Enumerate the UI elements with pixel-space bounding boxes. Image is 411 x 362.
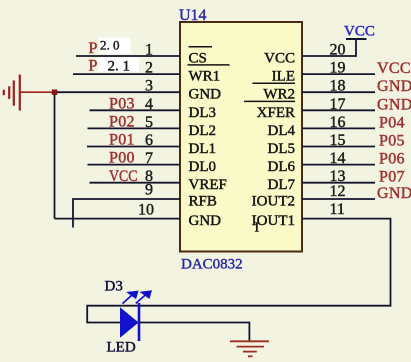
svg-text:LED: LED (107, 340, 136, 356)
svg-text:10: 10 (138, 201, 154, 218)
svg-text:P: P (89, 40, 98, 57)
LED D3 triangle (120, 307, 139, 338)
wire pin20 to VCC stub (302, 39, 356, 56)
svg-text:2. 0: 2. 0 (100, 38, 120, 53)
svg-text:WR1: WR1 (189, 69, 221, 85)
ground symbol (bottom, red bars) (230, 341, 269, 356)
power symbol VCC bar (346, 38, 367, 40)
wire pin1 (net P2.0) (76, 55, 180, 57)
svg-text:ILE: ILE (272, 69, 295, 85)
svg-text:DL0: DL0 (189, 159, 217, 175)
svg-text:12: 12 (330, 183, 346, 200)
svg-text:9: 9 (145, 182, 153, 199)
svg-text:P05: P05 (379, 133, 405, 150)
overline for XFER (244, 100, 295, 102)
svg-text:U14: U14 (179, 7, 207, 24)
svg-text:6: 6 (145, 132, 153, 149)
wire pin6 (net P01) (87, 146, 180, 148)
net label P2.0 (89, 38, 120, 58)
wire pin3 GND from junction (55, 91, 181, 93)
svg-text:DL7: DL7 (268, 177, 296, 193)
wire pin16 (net P04) (302, 127, 375, 129)
svg-text:1: 1 (145, 42, 153, 59)
svg-text:16: 16 (330, 114, 346, 131)
svg-text:D3: D3 (105, 279, 123, 295)
svg-text:20: 20 (330, 42, 346, 59)
svg-text:2: 2 (145, 60, 153, 77)
svg-text:5: 5 (145, 114, 153, 131)
svg-text:GND: GND (377, 185, 411, 202)
svg-text:XFER: XFER (257, 105, 295, 121)
LED light arrow 2 (136, 291, 151, 303)
svg-text:P03: P03 (109, 95, 135, 112)
svg-text:15: 15 (330, 132, 346, 149)
svg-text:3: 3 (145, 78, 153, 95)
wire pin9 with stub down (73, 199, 180, 228)
svg-text:DL3: DL3 (189, 105, 217, 121)
svg-text:7: 7 (145, 150, 153, 167)
wire vertical ground column (54, 92, 56, 218)
svg-text:DAC0832: DAC0832 (181, 257, 243, 273)
wire pin5 (net P02) (88, 127, 181, 129)
svg-text:DL6: DL6 (268, 159, 296, 175)
net label P2.0 background (99, 38, 131, 54)
wire pin7 (net P00) (88, 164, 181, 166)
svg-text:14: 14 (330, 150, 346, 167)
svg-text:VCC: VCC (109, 168, 138, 185)
junction dot (52, 90, 57, 95)
svg-text:VCC: VCC (377, 60, 411, 77)
wire LED cathode to ground (140, 323, 249, 342)
wire pin15 (net P05) (302, 146, 375, 148)
svg-text:GND: GND (189, 87, 222, 103)
earth ground symbol (left, red vertical bars) (4, 75, 20, 111)
svg-text:I: I (255, 221, 260, 236)
svg-text:GND: GND (377, 78, 411, 95)
svg-text:18: 18 (330, 78, 346, 95)
svg-text:19: 19 (330, 60, 346, 77)
LED light arrow 1 (122, 292, 137, 304)
svg-text:11: 11 (330, 201, 345, 218)
svg-text:DL2: DL2 (189, 123, 217, 139)
svg-text:P02: P02 (109, 114, 135, 131)
svg-text:IOUT2: IOUT2 (252, 194, 295, 210)
svg-text:WR2: WR2 (263, 87, 295, 103)
net label P2.1 (89, 58, 131, 75)
svg-text:GND: GND (189, 213, 222, 229)
svg-text:2. 1: 2. 1 (108, 59, 131, 75)
wire pin13 (net P07) (302, 182, 375, 184)
svg-text:VCC: VCC (344, 24, 375, 40)
svg-text:VREF: VREF (189, 177, 227, 193)
svg-text:4: 4 (145, 96, 153, 113)
wire pin17 (net GND) (302, 109, 375, 111)
wire pin2 (net P2.1) (73, 73, 180, 75)
svg-text:RFB: RFB (189, 194, 217, 210)
svg-text:P06: P06 (379, 151, 405, 168)
LED D3 cathode bar (138, 303, 141, 341)
svg-text:P07: P07 (379, 169, 405, 186)
wire pin19 (net VCC) (302, 73, 375, 75)
svg-text:DL1: DL1 (189, 141, 217, 157)
svg-text:VCC: VCC (264, 51, 295, 67)
svg-text:17: 17 (330, 96, 346, 113)
earth ground lead wire (red) (20, 91, 55, 93)
wire pin12 (net GND) (302, 198, 375, 200)
wire pin11 to LED loop (87, 219, 390, 323)
svg-text:DL4: DL4 (268, 123, 296, 139)
wire pin4 (net P03) (90, 109, 181, 111)
wire pin10 from ground column (55, 218, 181, 220)
svg-text:DL5: DL5 (268, 141, 296, 157)
svg-text:CS: CS (189, 51, 207, 67)
svg-text:P01: P01 (109, 132, 135, 149)
wire pin14 (net P06) (302, 164, 375, 166)
svg-text:GND: GND (377, 96, 411, 113)
overline for WR1 (188, 64, 230, 66)
svg-text:P00: P00 (109, 150, 135, 167)
svg-text:P: P (89, 58, 98, 75)
wire pin8 (net VCC) (90, 182, 181, 184)
svg-text:P04: P04 (379, 114, 405, 131)
net label P2.1 background (98, 58, 139, 72)
overline for CS (189, 46, 213, 48)
overline for WR2 (252, 82, 295, 84)
wire pin18 (net GND) (302, 91, 375, 93)
IC U14 body (DAC0832) (180, 22, 302, 252)
